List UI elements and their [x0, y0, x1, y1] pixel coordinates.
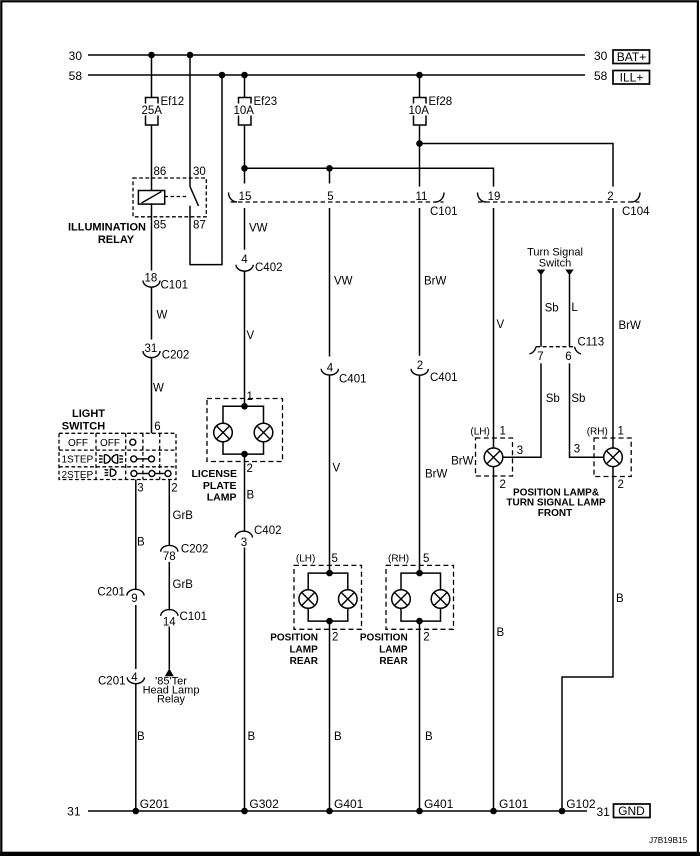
rear LH bulb left [299, 590, 318, 609]
svg-text:C113: C113 [578, 336, 605, 348]
svg-text:5: 5 [423, 553, 429, 565]
position lamp front RH dashed box [594, 438, 631, 477]
svg-text:25A: 25A [142, 105, 163, 117]
license lamp bulb left [214, 423, 233, 442]
junction dot bus30 x190 [187, 52, 194, 59]
junction dot x244 y168 [241, 165, 248, 172]
wire pin5 to connector 4 C401 [329, 208, 331, 357]
svg-text:3: 3 [241, 537, 247, 549]
wire turn signal switch left to C113 pin7 [540, 275, 542, 347]
junction dot bus58 x222 [219, 72, 226, 79]
svg-text:3: 3 [517, 445, 523, 457]
license lamp bulb right [254, 423, 273, 442]
svg-text:REAR: REAR [290, 656, 319, 667]
svg-text:BAT+: BAT+ [617, 50, 646, 64]
svg-text:VW: VW [249, 223, 268, 235]
svg-text:W: W [157, 310, 168, 322]
svg-text:2: 2 [247, 463, 253, 475]
wire license lamp to connector 3 C402 [244, 454, 246, 531]
ILLUMINATION RELAY label [68, 222, 146, 247]
svg-text:G101: G101 [499, 797, 529, 811]
svg-text:87: 87 [193, 220, 206, 232]
svg-text:15: 15 [239, 191, 252, 203]
svg-text:31: 31 [597, 805, 611, 819]
svg-text:V: V [497, 319, 505, 331]
relay switch blade [190, 187, 199, 207]
fuse Ef28 10A [409, 96, 453, 125]
wire connector14 to off-page arrow [168, 627, 170, 670]
illumination relay U dashed box [133, 178, 206, 217]
connector C113 dashed line [530, 336, 605, 354]
svg-text:LAMP: LAMP [289, 644, 318, 655]
wire connector78 to connector14 [168, 562, 170, 610]
svg-text:POSITION: POSITION [360, 632, 408, 643]
svg-text:C101: C101 [161, 280, 189, 292]
svg-text:SWITCH: SWITCH [62, 421, 105, 433]
svg-text:2STEP: 2STEP [62, 470, 94, 481]
wire fuse Ef23 down to connector pin 15 [244, 125, 246, 184]
wire rear LH lamp to ground G401 [329, 621, 331, 811]
svg-text:B: B [497, 627, 505, 639]
wire pin19 to front LH lamp [493, 208, 495, 448]
svg-text:85: 85 [154, 220, 167, 232]
svg-text:10A: 10A [234, 105, 255, 117]
svg-text:RELAY: RELAY [98, 234, 135, 246]
svg-text:5: 5 [332, 553, 338, 565]
wire connector2C401 to rear RH lamp [419, 375, 421, 573]
svg-text:G201: G201 [140, 797, 170, 811]
POSITION LAMP REAR label RH [360, 632, 409, 667]
svg-text:B: B [425, 731, 433, 743]
svg-text:C201: C201 [97, 586, 125, 598]
POSITION LAMP REAR label LH [270, 632, 319, 667]
svg-text:4: 4 [327, 362, 334, 374]
svg-text:C402: C402 [254, 525, 282, 537]
svg-text:LICENSE: LICENSE [191, 468, 237, 480]
svg-text:C101: C101 [430, 206, 458, 218]
svg-text:11: 11 [416, 191, 428, 203]
svg-text:19: 19 [488, 191, 501, 203]
svg-text:ILL+: ILL+ [620, 70, 644, 84]
wire relay pin 85 down to connector 18 [151, 203, 153, 270]
svg-text:LAMP: LAMP [207, 492, 237, 504]
svg-text:POSITION: POSITION [270, 632, 318, 643]
wire relay pin 87 down and over to bus58 [190, 75, 222, 265]
svg-text:2: 2 [417, 360, 423, 372]
wire connector9 to connector4 [135, 605, 137, 669]
ground bus wire 31 [88, 810, 587, 812]
svg-text:TURN SIGNAL LAMP: TURN SIGNAL LAMP [506, 498, 606, 509]
rear RH lamp internal wiring [401, 570, 441, 625]
light switch dashed table [59, 433, 176, 479]
svg-text:5: 5 [327, 191, 333, 203]
junction dot x329 y168 [326, 165, 333, 172]
svg-text:1: 1 [500, 426, 506, 438]
svg-text:BrW: BrW [424, 275, 447, 287]
wire fuse Ef28 down to connector pin 11 [419, 125, 421, 187]
off-page arrow from turn signal switch left [537, 270, 545, 276]
switch contacts row2 [131, 456, 155, 462]
LICENSE PLATE LAMP label [191, 468, 237, 504]
svg-text:B: B [334, 731, 342, 743]
svg-text:3: 3 [137, 483, 143, 495]
svg-text:ILLUMINATION: ILLUMINATION [68, 222, 146, 234]
svg-text:2: 2 [607, 191, 613, 203]
ground junction dot G102 [559, 808, 566, 815]
wire light switch pin2 down [168, 480, 170, 546]
wire stub pin5 above row [329, 168, 331, 183]
svg-text:B: B [137, 537, 145, 549]
connector 18 C101 [143, 273, 188, 292]
connector 4 C402 [236, 254, 283, 274]
wire connector4C402 to license plate lamp [244, 271, 246, 406]
switch contacts row3 [131, 471, 171, 477]
relay coil [138, 191, 164, 205]
fuse Ef23 10A [234, 96, 278, 125]
label '85'Ter Head Lamp Relay [143, 676, 200, 706]
license lamp internal wiring [223, 403, 264, 457]
license plate lamp dashed box [207, 399, 283, 462]
wire connector3C402 to ground G302 [244, 548, 246, 812]
parking lamps icon row2 [99, 455, 123, 464]
wire pin15 to connector 4 C402 [244, 208, 246, 250]
svg-text:PLATE: PLATE [203, 480, 237, 492]
svg-text:9: 9 [131, 593, 137, 605]
svg-text:6: 6 [565, 351, 571, 363]
POSITION LAMP & TURN SIGNAL LAMP FRONT label [506, 487, 606, 519]
wire bus58 to fuse Ef28 [419, 75, 421, 98]
junction dot bus58 x419 [416, 72, 423, 79]
connector 4 C201 [98, 672, 144, 688]
rear LH lamp internal wiring [308, 570, 348, 625]
svg-text:2: 2 [171, 483, 177, 495]
wire fuse Ef12 to relay coil pin 86 [151, 125, 153, 190]
junction dot bus30 x151 [148, 52, 155, 59]
svg-text:6: 6 [154, 421, 160, 433]
front RH bulb [604, 448, 623, 467]
wire bus58 to fuse Ef23 [244, 75, 246, 98]
svg-text:BrW: BrW [425, 469, 448, 481]
ground junction dot G201 [133, 808, 140, 815]
ground junction dot G401 RH [416, 808, 423, 815]
svg-text:G302: G302 [249, 797, 279, 811]
svg-text:LAMP: LAMP [379, 644, 408, 655]
switch contact row1 [130, 439, 136, 445]
svg-text:OFF: OFF [100, 438, 120, 449]
svg-text:L: L [571, 302, 578, 314]
svg-text:Ef23: Ef23 [254, 96, 278, 108]
svg-text:BrW: BrW [451, 456, 474, 468]
off-page arrow to head lamp relay [165, 669, 174, 677]
svg-text:Sb: Sb [546, 393, 560, 405]
svg-text:78: 78 [163, 551, 176, 563]
horizontal wire y168 to C101 pin19 [245, 168, 494, 186]
connector row C104 dashed line [478, 193, 651, 219]
horizontal wire y143 to C104 pin2 [420, 144, 614, 187]
off-page arrow from turn signal switch right [565, 270, 573, 276]
svg-text:7: 7 [537, 351, 543, 363]
wire front LH pin3 to C113 pin7 [503, 363, 541, 457]
svg-text:G102: G102 [566, 797, 596, 811]
svg-text:Sb: Sb [545, 302, 559, 314]
svg-text:LIGHT: LIGHT [72, 408, 105, 420]
svg-text:V: V [247, 330, 255, 342]
svg-text:4: 4 [131, 672, 138, 684]
svg-text:C401: C401 [430, 372, 458, 384]
svg-text:B: B [137, 731, 145, 743]
front LH bulb [484, 448, 503, 467]
svg-text:C402: C402 [255, 262, 283, 274]
svg-text:V: V [333, 463, 341, 475]
svg-text:Ef28: Ef28 [429, 96, 453, 108]
wire light switch pin3 down [135, 480, 137, 590]
wire front LH lamp to ground G101 [493, 467, 495, 811]
ground junction dot G101 [490, 808, 497, 815]
svg-text:31: 31 [67, 805, 81, 819]
wire C104 pin2 to front RH lamp [612, 208, 614, 448]
wire front RH lamp down, jog left, to ground G102 [562, 467, 613, 811]
connector 14 C101 [161, 610, 207, 629]
svg-text:2: 2 [618, 479, 624, 491]
svg-text:1STEP: 1STEP [62, 454, 94, 465]
svg-text:C101: C101 [180, 611, 208, 623]
Turn Signal Switch label [527, 247, 583, 270]
bus 58 (ILL+) wire [88, 74, 585, 76]
connector 3 C402 [235, 525, 281, 549]
svg-text:(LH): (LH) [470, 427, 489, 438]
svg-text:B: B [247, 490, 255, 502]
position lamp rear RH dashed box [386, 565, 454, 629]
rear LH bulb right [339, 590, 358, 609]
svg-text:VW: VW [334, 275, 353, 287]
junction dot bus58 x244 [241, 72, 248, 79]
svg-text:GrB: GrB [173, 510, 194, 522]
ground junction dot G302 [241, 808, 248, 815]
svg-text:2: 2 [332, 631, 338, 643]
connector 9 C201 [97, 586, 144, 605]
svg-text:Switch: Switch [539, 258, 571, 270]
svg-text:31: 31 [145, 343, 158, 355]
svg-text:REAR: REAR [379, 656, 408, 667]
wire bus30 to fuse Ef12 [151, 55, 153, 98]
svg-text:86: 86 [154, 166, 167, 178]
connector 2 C401 [411, 360, 457, 384]
svg-text:Ef12: Ef12 [161, 96, 185, 108]
svg-text:18: 18 [145, 273, 158, 285]
svg-text:1: 1 [618, 426, 624, 438]
svg-text:B: B [616, 593, 624, 605]
svg-text:30: 30 [69, 49, 83, 63]
LIGHT SWITCH label [62, 408, 105, 433]
svg-text:(RH): (RH) [388, 554, 409, 565]
svg-text:(LH): (LH) [296, 554, 315, 565]
wire turn signal switch right to C113 pin6 [569, 275, 571, 347]
svg-text:(RH): (RH) [587, 427, 608, 438]
svg-text:GND: GND [618, 804, 645, 818]
svg-text:3: 3 [574, 444, 580, 456]
svg-text:Relay: Relay [157, 693, 186, 705]
svg-text:2: 2 [423, 631, 429, 643]
svg-text:G401: G401 [424, 797, 454, 811]
position lamp front LH dashed box [476, 438, 513, 476]
wire connector4 to ground G201 [135, 684, 137, 811]
svg-text:OFF: OFF [68, 438, 88, 449]
svg-text:GrB: GrB [173, 579, 194, 591]
connector 78 C202 [161, 544, 209, 563]
wire connector4C401 to rear LH lamp [329, 375, 331, 573]
connector row C101 dashed line [229, 193, 458, 219]
svg-text:58: 58 [594, 69, 608, 83]
svg-text:C104: C104 [622, 206, 650, 218]
rear RH bulb right [431, 590, 450, 609]
svg-text:30: 30 [594, 49, 608, 63]
connector 31 C202 [143, 343, 189, 362]
svg-text:C201: C201 [98, 676, 126, 688]
svg-text:10A: 10A [409, 105, 430, 117]
rear RH bulb left [392, 590, 411, 609]
svg-text:G401: G401 [334, 797, 364, 811]
GND terminal box [614, 804, 651, 818]
svg-text:4: 4 [241, 254, 248, 266]
svg-text:2: 2 [500, 479, 506, 491]
bus 30 (BAT+) wire [88, 54, 585, 56]
svg-text:J7B19B15: J7B19B15 [649, 835, 688, 845]
junction dot x419 y143 [416, 140, 423, 147]
position lamp rear LH dashed box [294, 565, 362, 629]
svg-text:C202: C202 [162, 350, 190, 362]
relay coil-switch dashed link [165, 196, 188, 198]
wire connector18 to connector31 [151, 287, 153, 340]
svg-text:30: 30 [193, 166, 206, 178]
headlamp icon row3 [105, 469, 116, 477]
wire rear RH lamp to ground G401 [419, 621, 421, 811]
svg-text:Sb: Sb [571, 393, 585, 405]
BAT+ terminal box [613, 50, 650, 64]
svg-text:FRONT: FRONT [538, 508, 572, 519]
connector 4 C401 [321, 362, 366, 385]
svg-text:W: W [153, 383, 164, 395]
wire pin11 to connector 2 C401 [419, 208, 421, 356]
wire front RH pin3 to C113 pin6 [570, 363, 604, 457]
svg-text:C401: C401 [339, 374, 367, 386]
ground junction dot G401 LH [326, 808, 333, 815]
svg-text:58: 58 [69, 69, 83, 83]
fuse Ef12 25A [142, 96, 185, 125]
svg-text:1: 1 [247, 391, 253, 403]
svg-text:C202: C202 [181, 544, 209, 556]
wire connector31 to light switch pin 6 [151, 358, 153, 434]
svg-text:BrW: BrW [619, 320, 642, 332]
wire bus30 to relay pin 30 [189, 55, 191, 187]
svg-text:B: B [248, 731, 256, 743]
ILL+ terminal box [613, 70, 650, 84]
